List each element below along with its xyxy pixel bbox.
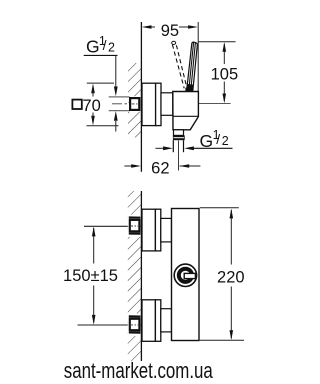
- outlet collar nut (dark): [173, 135, 185, 140]
- outlet neck below body: [174, 130, 184, 136]
- svg-text:105: 105: [211, 65, 239, 83]
- valve axis centerline (top view): [112, 103, 231, 105]
- lever top reference line (dim 105): [198, 41, 235, 43]
- svg-text:2: 2: [222, 134, 229, 148]
- svg-text:70: 70: [82, 97, 100, 115]
- faucet body (lower view): [172, 209, 200, 341]
- lower square fitting (lower view): [129, 315, 141, 333]
- wall surface line / left extension of dim 95: [140, 22, 142, 172]
- lower union nut: [161, 309, 172, 332]
- svg-text:G: G: [200, 131, 214, 151]
- escutcheon (top view): [142, 83, 156, 125]
- svg-text:95: 95: [161, 22, 179, 40]
- upper escutcheon plate: [155, 209, 160, 251]
- lever (dashed, tilted position): [172, 41, 187, 88]
- dimension square-70 extension lines: [87, 82, 114, 84]
- svg-text:G: G: [86, 37, 100, 57]
- svg-text:/: /: [103, 37, 107, 53]
- concealed square fitting (top view): [130, 98, 139, 110]
- svg-text:150±15: 150±15: [63, 267, 118, 285]
- upper connection centerline: [84, 225, 128, 227]
- supply pipe in wall (top view): [109, 96, 130, 98]
- upper escutcheon (lower view): [142, 209, 155, 251]
- dimension square-70 arrows and text: [72, 83, 100, 125]
- dimension 95: [142, 22, 198, 40]
- control knob: [174, 264, 196, 286]
- svg-text:220: 220: [217, 269, 245, 287]
- lever (solid, upright position): [185, 42, 197, 91]
- dimension 62: [124, 159, 200, 177]
- svg-text:62: 62: [151, 159, 169, 177]
- upper square fitting (lower view): [129, 216, 141, 234]
- lower connection centerline: [78, 324, 128, 326]
- leader from G 1/2 to supply pipe: [114, 55, 118, 96]
- wall hatch (top view): [128, 63, 141, 137]
- label G 1/2 (outlet) with arrows: [155, 128, 232, 151]
- dimension 220: [217, 209, 245, 340]
- escutcheon front plate (top view): [156, 83, 161, 125]
- union neck (top view): [161, 93, 173, 116]
- dimension 150±15: [63, 227, 118, 325]
- svg-text:2: 2: [108, 41, 115, 55]
- svg-text:sant-market.com.ua: sant-market.com.ua: [64, 358, 213, 383]
- faucet body (top view): [173, 92, 199, 130]
- upper union nut: [161, 218, 172, 242]
- dimension 105: [211, 42, 239, 103]
- outlet centerline / 62 extension: [178, 141, 180, 171]
- label G 1/2 (top left): [84, 34, 118, 56]
- outlet pipe G1/2: [172, 140, 174, 152]
- right extension line (body front edge, dim 95): [197, 22, 199, 92]
- extension lines for 220: [200, 207, 239, 209]
- wall hatch (lower view): [128, 191, 142, 361]
- lower escutcheon plate: [155, 300, 160, 342]
- svg-text:/: /: [216, 131, 220, 147]
- wall surface line (lower view): [140, 191, 142, 361]
- lower escutcheon (lower view): [142, 300, 155, 342]
- arrow at pipe underside: [114, 111, 118, 132]
